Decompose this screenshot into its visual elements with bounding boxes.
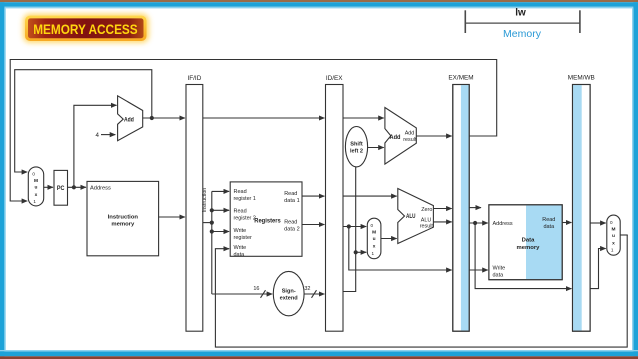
- svg-text:register: register: [234, 235, 253, 241]
- mux M2 (ALU operand B): [367, 218, 381, 259]
- wire ALU result from MEM/WB to mux M3 input 1: [590, 249, 606, 289]
- wire instruction to Read register 1: [212, 190, 229, 192]
- svg-text:0: 0: [610, 220, 613, 225]
- svg-text:Memory: Memory: [503, 28, 542, 40]
- pipeline register MEM/WB (left half highlighted): [568, 75, 595, 332]
- wire ALU Zero to EX/MEM: [433, 208, 451, 210]
- wire PC+4 from ID/EX to adder Add result: [343, 117, 384, 119]
- wire ALU result to EX/MEM: [433, 221, 451, 223]
- svg-text:memory: memory: [517, 245, 541, 251]
- svg-text:Read: Read: [234, 209, 247, 215]
- svg-text:u: u: [612, 234, 615, 239]
- wire instruction[15-0] to sign-extend: [212, 293, 272, 295]
- svg-text:Address: Address: [493, 221, 513, 227]
- wire shift left 2 to adder Add result: [368, 147, 384, 149]
- svg-text:Instruction: Instruction: [108, 214, 139, 220]
- wire constant 4 to adder Add: [101, 134, 115, 136]
- svg-text:Address: Address: [90, 186, 111, 192]
- svg-text:PC: PC: [57, 185, 65, 192]
- node instruction tee: [210, 221, 214, 225]
- wire mux M2 to ALU: [381, 238, 397, 240]
- wire PC to instruction memory Address: [68, 186, 86, 188]
- svg-text:left 2: left 2: [350, 149, 363, 155]
- mux M3 (write-back select): [607, 215, 620, 255]
- svg-text:u: u: [373, 237, 376, 242]
- svg-text:ALU: ALU: [406, 213, 416, 220]
- slash 16-bit: [261, 290, 266, 298]
- node ALU result branch: [473, 221, 477, 225]
- svg-text:EX/MEM: EX/MEM: [448, 75, 473, 82]
- svg-text:1: 1: [611, 247, 614, 252]
- wire PC junction up to adder Add input: [74, 105, 117, 187]
- wire ALU result from EX/MEM to data memory Address: [469, 222, 488, 224]
- svg-text:IF/ID: IF/ID: [187, 75, 201, 82]
- node PC output junction: [72, 185, 76, 189]
- wire Read data 1 to ID/EX: [302, 195, 324, 197]
- svg-text:ID/EX: ID/EX: [326, 75, 343, 82]
- svg-text:result: result: [403, 137, 417, 143]
- adder Add result (branch): [385, 108, 417, 165]
- svg-text:Add: Add: [124, 118, 134, 124]
- svg-text:Read: Read: [234, 189, 247, 195]
- wire Zero out of EX/MEM: [469, 207, 481, 209]
- slash 32-bit: [312, 290, 317, 298]
- svg-text:x: x: [373, 245, 376, 250]
- wire instruction to Read register 2: [212, 209, 229, 211]
- svg-text:register 2: register 2: [234, 216, 256, 222]
- node instruction branch to Read register 2: [210, 208, 214, 212]
- svg-text:Instruction: Instruction: [202, 188, 208, 212]
- svg-text:32: 32: [304, 286, 310, 292]
- data memory (read side highlighted): [489, 205, 562, 280]
- pipeline register IF/ID: [186, 75, 203, 331]
- wire mux M3 output: [620, 234, 628, 236]
- svg-text:MEMORY ACCESS: MEMORY ACCESS: [33, 21, 138, 37]
- svg-text:1: 1: [33, 199, 36, 204]
- shift left 2 unit: [345, 127, 367, 167]
- svg-text:x: x: [612, 241, 615, 246]
- svg-text:Registers: Registers: [254, 217, 281, 224]
- ALU: [398, 189, 434, 244]
- svg-text:0: 0: [371, 223, 374, 228]
- wire PC+4 feedback to mux M1 input 0: [15, 70, 152, 172]
- svg-text:x: x: [35, 193, 38, 198]
- svg-text:Write: Write: [234, 245, 247, 251]
- svg-text:M: M: [612, 226, 616, 232]
- wire branch target from EX/MEM to mux M1 input 1: [10, 60, 497, 202]
- wire instruction out of IF/ID: [203, 222, 212, 224]
- pipeline register EX/MEM (right half highlighted): [448, 75, 473, 332]
- registers: [230, 182, 302, 258]
- wire mux M1 to PC: [44, 186, 53, 188]
- svg-text:Zero: Zero: [421, 207, 432, 213]
- svg-text:Write: Write: [234, 228, 247, 234]
- wire immediate from ID/EX up to shift left 2: [343, 167, 356, 292]
- svg-text:memory: memory: [111, 222, 135, 228]
- svg-text:data 1: data 1: [284, 198, 300, 204]
- frame: inner light fades: [4, 8, 5, 351]
- svg-text:data: data: [543, 224, 555, 230]
- caption bracket: [465, 10, 580, 33]
- svg-text:1: 1: [372, 251, 375, 256]
- title MEMORY ACCESS glow: [23, 14, 149, 43]
- wire Read data from MEM/WB to mux M3 input 0: [590, 222, 606, 224]
- node immediate branch: [354, 250, 358, 254]
- wire Read data 1 from ID/EX to ALU: [343, 195, 397, 197]
- PC: [54, 170, 68, 205]
- wire write data from EX/MEM to data memory: [469, 269, 488, 271]
- title box: [28, 18, 144, 38]
- svg-text:Sign-: Sign-: [282, 289, 296, 295]
- wire adder Add output to IF/ID: [143, 117, 185, 119]
- svg-text:Read: Read: [542, 217, 555, 223]
- svg-text:Add: Add: [390, 135, 401, 141]
- frame: top brown strip: [0, 0, 638, 2]
- svg-text:M: M: [34, 178, 38, 184]
- sign-extend unit: [273, 271, 304, 315]
- svg-text:4: 4: [96, 132, 100, 139]
- wire instruction to Write register: [212, 231, 229, 233]
- wire immediate to mux M2 input 1: [356, 251, 367, 253]
- frame: right cyan band: [633, 2, 638, 356]
- svg-text:Write: Write: [493, 266, 506, 272]
- wire sign-extend to ID/EX: [304, 293, 324, 295]
- svg-text:u: u: [35, 185, 38, 190]
- instruction memory: [87, 181, 159, 255]
- svg-text:extend: extend: [280, 296, 299, 302]
- svg-text:data: data: [234, 252, 246, 258]
- svg-text:data: data: [493, 272, 505, 278]
- mux M1 (PC source): [28, 167, 43, 206]
- svg-text:Data: Data: [522, 238, 535, 244]
- wire instruction bus vertical: [211, 191, 213, 294]
- svg-text:Shift: Shift: [350, 142, 363, 148]
- wire instruction memory to IF/ID: [159, 216, 185, 218]
- svg-text:Add: Add: [405, 130, 415, 136]
- svg-text:MEM/WB: MEM/WB: [568, 75, 595, 82]
- adder Add (PC+4): [118, 96, 143, 141]
- wire Read data from data memory to MEM/WB: [562, 222, 571, 224]
- frame: top cyan band: [0, 2, 638, 7]
- wire PC+4 from IF/ID to ID/EX: [203, 117, 325, 119]
- svg-text:M: M: [372, 230, 376, 236]
- wire adder Add result to EX/MEM: [416, 135, 451, 137]
- svg-text:16: 16: [253, 286, 259, 292]
- wire ALU result bypass to MEM/WB: [475, 223, 571, 289]
- svg-text:lw: lw: [515, 8, 526, 19]
- node PC+4 junction: [150, 116, 154, 120]
- svg-text:Read: Read: [284, 219, 297, 225]
- wire Read data 2 to ID/EX: [302, 224, 324, 226]
- wire Read data 2 from ID/EX to mux M2 input 0: [343, 226, 366, 228]
- svg-text:Read: Read: [284, 191, 297, 197]
- title ring: [25, 16, 147, 41]
- svg-text:data 2: data 2: [284, 226, 300, 232]
- node Read data 2 branch: [347, 224, 351, 228]
- frame: bottom brown strip: [0, 356, 638, 359]
- pipeline register ID/EX: [326, 75, 344, 331]
- svg-text:0: 0: [32, 171, 35, 176]
- frame: bottom cyan band: [0, 351, 638, 356]
- svg-text:result: result: [420, 223, 434, 229]
- wire writeback to Write data: [215, 235, 627, 347]
- wire Read data 2 down to EX/MEM write data: [349, 227, 452, 271]
- svg-text:register 1: register 1: [234, 196, 256, 202]
- node instruction branch to Write register: [210, 229, 214, 233]
- frame: left cyan band: [0, 2, 4, 356]
